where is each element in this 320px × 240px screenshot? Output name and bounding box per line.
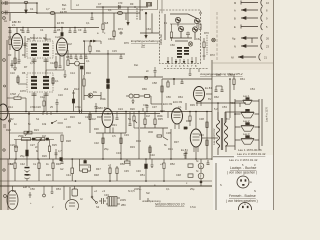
svg-text:R37: R37 bbox=[174, 140, 179, 144]
svg-text:C18: C18 bbox=[40, 95, 45, 99]
svg-text:( von hinten gesehen ): ( von hinten gesehen ) bbox=[226, 199, 258, 203]
svg-text:R6: R6 bbox=[22, 71, 26, 75]
svg-text:0,5M: 0,5M bbox=[10, 92, 16, 96]
svg-text:50mA: 50mA bbox=[44, 37, 51, 41]
svg-text:C2: C2 bbox=[8, 35, 12, 39]
svg-text:EL 84: EL 84 bbox=[181, 148, 188, 152]
svg-text:C14: C14 bbox=[70, 71, 75, 75]
svg-text:unter Spannung: unter Spannung bbox=[142, 199, 161, 203]
svg-text:S: S bbox=[220, 183, 222, 187]
svg-text:R39: R39 bbox=[190, 103, 195, 107]
svg-text:R28: R28 bbox=[66, 139, 71, 143]
svg-text:C16: C16 bbox=[58, 93, 63, 97]
svg-text:1670: 1670 bbox=[20, 89, 26, 93]
svg-text:R62: R62 bbox=[214, 95, 219, 99]
svg-text:R47: R47 bbox=[96, 167, 101, 171]
svg-text:C66: C66 bbox=[108, 37, 113, 41]
svg-text:DG: DG bbox=[93, 90, 97, 94]
svg-text:C50: C50 bbox=[30, 187, 35, 191]
svg-text:R3: R3 bbox=[8, 53, 12, 57]
svg-text:M2: M2 bbox=[10, 117, 14, 121]
svg-text:C11: C11 bbox=[16, 61, 21, 65]
svg-text:R40: R40 bbox=[199, 133, 204, 137]
svg-text:0,1: 0,1 bbox=[86, 21, 90, 25]
svg-text:100k: 100k bbox=[100, 97, 106, 101]
svg-text:R74: R74 bbox=[118, 27, 123, 31]
svg-text:M: M bbox=[234, 1, 236, 5]
svg-text:S1: S1 bbox=[36, 117, 40, 121]
svg-text:R18: R18 bbox=[97, 115, 102, 119]
svg-text:S2: S2 bbox=[96, 205, 100, 209]
svg-text:0,1: 0,1 bbox=[166, 187, 170, 191]
svg-text:C9: C9 bbox=[78, 28, 82, 32]
svg-text:N: N bbox=[234, 45, 236, 49]
svg-text:C1: C1 bbox=[30, 7, 34, 11]
svg-text:R26: R26 bbox=[42, 154, 47, 158]
svg-text:R35: R35 bbox=[158, 117, 163, 121]
svg-text:Bu1: Bu1 bbox=[62, 3, 67, 7]
svg-text:C40: C40 bbox=[150, 153, 155, 157]
svg-text:C4: C4 bbox=[40, 28, 44, 32]
svg-text:R30: R30 bbox=[94, 127, 99, 131]
svg-text:R44: R44 bbox=[8, 162, 13, 166]
svg-text:C54: C54 bbox=[250, 87, 255, 91]
svg-text:R10: R10 bbox=[86, 71, 91, 75]
svg-text:C33: C33 bbox=[124, 133, 129, 137]
svg-text:25µ: 25µ bbox=[190, 187, 195, 191]
svg-text:ECC 83: ECC 83 bbox=[173, 100, 183, 104]
svg-text:A: A bbox=[234, 9, 236, 13]
svg-text:C38: C38 bbox=[199, 117, 204, 121]
svg-text:R54: R54 bbox=[56, 187, 61, 191]
svg-text:Ausgangsschaltung 96EL13/5-2: Ausgangsschaltung 96EL13/5-2 bbox=[199, 72, 243, 76]
svg-text:Lau 1: Lau 1 bbox=[243, 94, 250, 98]
svg-text:R16: R16 bbox=[70, 115, 75, 119]
svg-text:R46: R46 bbox=[56, 162, 61, 166]
svg-text:R76: R76 bbox=[124, 41, 129, 45]
svg-text:1M: 1M bbox=[146, 114, 150, 118]
svg-text:C34: C34 bbox=[116, 151, 121, 155]
svg-text:C27: C27 bbox=[30, 143, 35, 147]
svg-text:2k2: 2k2 bbox=[64, 87, 69, 91]
svg-text:Si2: Si2 bbox=[146, 191, 150, 195]
svg-text:220V: 220V bbox=[120, 198, 126, 202]
svg-text:R63: R63 bbox=[230, 101, 235, 105]
svg-text:R66: R66 bbox=[142, 87, 147, 91]
svg-text:C46: C46 bbox=[136, 169, 141, 173]
svg-text:C3: C3 bbox=[62, 7, 66, 11]
svg-text:R36: R36 bbox=[160, 109, 165, 113]
svg-text:220V~: 220V~ bbox=[134, 187, 142, 191]
svg-text:Lau 4 u 1170: Lau 4 u 1170 bbox=[265, 106, 269, 122]
svg-text:C53: C53 bbox=[222, 105, 227, 109]
svg-text:Lau 2 u 3 1672.01.42: Lau 2 u 3 1672.01.42 bbox=[229, 158, 258, 162]
svg-text:0,1: 0,1 bbox=[86, 59, 90, 63]
svg-text:Cr: Cr bbox=[88, 165, 91, 169]
svg-text:EL 84: EL 84 bbox=[205, 86, 212, 90]
svg-text:EABC 80: EABC 80 bbox=[96, 106, 107, 110]
svg-text:Lau u 1170.02: Lau u 1170.02 bbox=[212, 128, 216, 145]
svg-text:25µ: 25µ bbox=[104, 147, 109, 151]
svg-text:Lau 2: Lau 2 bbox=[243, 119, 250, 123]
svg-text:C15: C15 bbox=[112, 49, 117, 53]
svg-text:R11: R11 bbox=[96, 49, 101, 53]
svg-text:C48: C48 bbox=[176, 173, 181, 177]
svg-text:3el: 3el bbox=[141, 44, 145, 48]
svg-text:C20: C20 bbox=[36, 105, 41, 109]
svg-text:C7: C7 bbox=[98, 2, 102, 6]
svg-text:B: B bbox=[234, 17, 236, 21]
svg-text:C44: C44 bbox=[66, 173, 71, 177]
svg-text:0,5: 0,5 bbox=[112, 134, 116, 138]
svg-text:4,7: 4,7 bbox=[46, 7, 50, 11]
svg-text:10k: 10k bbox=[42, 122, 47, 126]
svg-text:25µ: 25µ bbox=[20, 154, 25, 158]
svg-text:R34: R34 bbox=[136, 139, 141, 143]
svg-text:C52: C52 bbox=[228, 73, 233, 77]
svg-text:EF 85: EF 85 bbox=[57, 21, 64, 25]
svg-text:C12: C12 bbox=[50, 61, 55, 65]
svg-text:R9: R9 bbox=[130, 2, 134, 6]
svg-text:0,1: 0,1 bbox=[178, 105, 182, 109]
svg-text:R23: R23 bbox=[34, 128, 39, 132]
svg-text:470p: 470p bbox=[75, 105, 81, 109]
svg-text:C64: C64 bbox=[146, 27, 151, 31]
svg-text:EM: EM bbox=[12, 189, 16, 193]
svg-text:Lau 2 u 3 1672.01.42: Lau 2 u 3 1672.01.42 bbox=[237, 152, 266, 156]
svg-text:R60: R60 bbox=[216, 73, 221, 77]
svg-text:R20: R20 bbox=[130, 107, 135, 111]
svg-text:C22: C22 bbox=[85, 115, 90, 119]
svg-text:( von oben gesehen ): ( von oben gesehen ) bbox=[227, 171, 257, 175]
svg-text:Gl: Gl bbox=[80, 197, 83, 201]
svg-text:1M: 1M bbox=[42, 134, 46, 138]
svg-text:Netzteil 066/3 DU 10: Netzteil 066/3 DU 10 bbox=[155, 203, 185, 207]
svg-text:0,1: 0,1 bbox=[55, 79, 59, 83]
svg-text:R51: R51 bbox=[140, 173, 145, 177]
svg-text:R70: R70 bbox=[204, 31, 209, 35]
svg-text:Det: Det bbox=[134, 63, 138, 67]
svg-text:E: E bbox=[234, 25, 236, 29]
svg-text:R12: R12 bbox=[74, 87, 79, 91]
svg-text:0,1: 0,1 bbox=[108, 8, 112, 12]
svg-text:C26: C26 bbox=[10, 143, 15, 147]
svg-text:Ng: Ng bbox=[232, 37, 236, 41]
svg-text:Fernseh - Buchse: Fernseh - Buchse bbox=[229, 194, 256, 198]
svg-text:R14: R14 bbox=[8, 105, 13, 109]
svg-text:1M: 1M bbox=[92, 117, 96, 121]
svg-text:R64: R64 bbox=[178, 95, 183, 99]
svg-text:C35: C35 bbox=[143, 103, 148, 107]
svg-text:Cu30: Cu30 bbox=[55, 35, 62, 39]
svg-text:C49: C49 bbox=[104, 193, 109, 197]
svg-text:R22: R22 bbox=[6, 128, 11, 132]
svg-text:R8: R8 bbox=[66, 55, 70, 59]
svg-text:R33: R33 bbox=[130, 145, 135, 149]
svg-text:2,1: 2,1 bbox=[12, 23, 16, 27]
svg-text:R25: R25 bbox=[52, 143, 57, 147]
svg-text:1M: 1M bbox=[68, 42, 72, 46]
svg-text:6V: 6V bbox=[208, 97, 211, 101]
svg-text:UKW-Teil: UKW-Teil bbox=[159, 34, 163, 45]
svg-text:Lau 3: Lau 3 bbox=[243, 132, 250, 136]
svg-text:C30: C30 bbox=[66, 125, 71, 129]
svg-text:R45: R45 bbox=[46, 173, 51, 177]
svg-text:R41: R41 bbox=[168, 147, 173, 151]
svg-text:C60: C60 bbox=[170, 43, 175, 47]
svg-text:C36: C36 bbox=[166, 131, 171, 135]
svg-text:M: M bbox=[36, 149, 38, 153]
svg-text:M1: M1 bbox=[27, 37, 31, 41]
svg-text:R50: R50 bbox=[120, 162, 125, 166]
svg-text:R5: R5 bbox=[57, 28, 61, 32]
svg-text:5,2: 5,2 bbox=[214, 107, 218, 111]
svg-text:470: 470 bbox=[118, 1, 123, 5]
svg-text:R48: R48 bbox=[94, 173, 99, 177]
svg-text:C56: C56 bbox=[166, 95, 171, 99]
svg-text:C10: C10 bbox=[10, 71, 15, 75]
svg-text:2BC: 2BC bbox=[121, 203, 126, 207]
svg-text:R7: R7 bbox=[24, 65, 28, 69]
svg-text:300/: 300/ bbox=[148, 130, 153, 134]
svg-text:C62: C62 bbox=[196, 37, 201, 41]
svg-text:C32: C32 bbox=[94, 141, 99, 145]
svg-text:b 5-b: b 5-b bbox=[190, 205, 196, 209]
svg-text:C43: C43 bbox=[26, 173, 31, 177]
svg-text:C45: C45 bbox=[124, 169, 129, 173]
svg-text:ECC 83: ECC 83 bbox=[163, 102, 173, 106]
svg-text:R61: R61 bbox=[240, 77, 245, 81]
svg-text:4,7k: 4,7k bbox=[30, 61, 36, 65]
svg-text:4,7: 4,7 bbox=[58, 149, 62, 153]
svg-text:C37: C37 bbox=[152, 105, 157, 109]
svg-text:Tr2: Tr2 bbox=[226, 117, 230, 121]
svg-text:N: N bbox=[254, 189, 256, 193]
svg-text:R1: R1 bbox=[20, 28, 24, 32]
svg-text:R31: R31 bbox=[112, 123, 117, 127]
svg-text:6k8: 6k8 bbox=[104, 21, 109, 25]
svg-text:Empfängerschaltung: Empfängerschaltung bbox=[131, 39, 159, 43]
svg-text:C24: C24 bbox=[118, 107, 123, 111]
svg-text:250k: 250k bbox=[18, 134, 24, 138]
svg-text:An: An bbox=[4, 19, 8, 23]
svg-text:C42: C42 bbox=[20, 162, 25, 166]
svg-text:G2: G2 bbox=[60, 167, 64, 171]
svg-text:Nf: Nf bbox=[231, 56, 234, 60]
svg-text:C58: C58 bbox=[152, 81, 157, 85]
svg-text:R72: R72 bbox=[210, 53, 215, 57]
svg-text:R52: R52 bbox=[170, 162, 175, 166]
